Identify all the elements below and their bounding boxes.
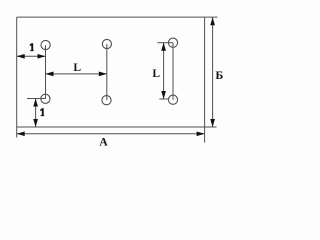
dimension line l (bottom-left vertical)	[35, 99, 37, 128]
arrow up of dim Б	[210, 17, 215, 25]
dimension line l (top-left horizontal)	[17, 55, 46, 57]
hole bottom-middle	[102, 96, 111, 105]
arrow right of dim A	[197, 131, 205, 136]
svg-text:Б: Б	[215, 68, 223, 82]
svg-text:A: A	[99, 137, 108, 149]
arrow down of dim Б	[210, 119, 215, 127]
dimension line Б (right vertical)	[212, 17, 214, 127]
svg-text:L: L	[73, 62, 81, 74]
tick bottom of vertical L	[159, 98, 168, 100]
arrow right of dim l top	[38, 54, 46, 59]
connector line middle column	[106, 44, 108, 100]
arrow up of dim L vertical	[161, 43, 166, 51]
connector line left column	[45, 45, 47, 99]
tick top of vertical L	[157, 42, 173, 44]
hole top-middle	[102, 39, 111, 48]
arrow left of dim A	[17, 131, 25, 136]
plate outline: right edge (extends down for A extension)	[204, 17, 206, 142]
label l (top-left)	[30, 43, 34, 51]
hole top-right	[168, 38, 177, 47]
dimension line L (horizontal between columns)	[46, 73, 107, 75]
plate outline: bottom edge (extends right for Б extension)	[17, 126, 217, 128]
plate outline: top edge (extends right for Б extension)	[17, 16, 218, 18]
arrow left of dim l top	[17, 54, 25, 59]
dimension line L (vertical right column)	[163, 43, 165, 99]
arrow down of dim L vertical	[161, 91, 166, 99]
svg-text:L: L	[152, 68, 160, 80]
arrow up of dim l bottom	[33, 99, 38, 107]
plate outline: left edge (extends down for A extension)	[16, 17, 18, 137]
arrow right of dim L horizontal	[99, 72, 107, 77]
dimension line A (bottom horizontal)	[17, 133, 205, 135]
hole bottom-right	[168, 95, 177, 104]
arrow down of dim l bottom	[33, 119, 38, 127]
hole top-left	[41, 40, 50, 49]
hole bottom-left	[41, 94, 50, 103]
connector line right column	[172, 43, 174, 100]
tick for bottom-left l	[27, 98, 45, 100]
arrow left of dim L horizontal	[46, 72, 54, 77]
label l (bottom-left)	[40, 108, 44, 116]
